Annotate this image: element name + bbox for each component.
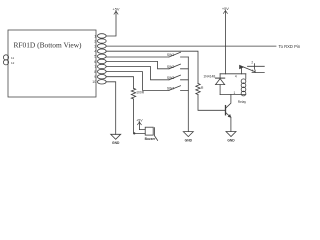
- pin 4 pad: [97, 49, 106, 53]
- wire pin7 to switch SW3: [106, 67, 169, 80]
- pin 12 pad: [3, 60, 8, 65]
- pin 5 pad: [97, 54, 106, 58]
- svg-text:SW1: SW1: [167, 53, 174, 57]
- resistor 100R: [131, 88, 135, 99]
- wire +5V riser to diode/relay node: [224, 11, 226, 74]
- buzzer LS1 body: [145, 127, 153, 135]
- svg-text:11: 11: [11, 56, 14, 60]
- svg-text:100R: 100R: [136, 90, 145, 94]
- wire switch bus to ground: [187, 57, 189, 132]
- svg-text:SW3: SW3: [167, 76, 174, 80]
- svg-text:5: 5: [94, 55, 96, 59]
- svg-text:Buzzer: Buzzer: [145, 137, 157, 141]
- module U1 RF01D body: [8, 30, 96, 97]
- relay K1 armature: [243, 67, 254, 72]
- svg-text:Relay: Relay: [238, 100, 247, 104]
- junction dot buzzer input: [133, 132, 135, 134]
- diode D1 stubs: [219, 74, 221, 95]
- svg-text:8: 8: [94, 70, 96, 74]
- pin 1 pad: [97, 34, 106, 38]
- svg-text:4: 4: [94, 50, 96, 54]
- transistor Q1 emitter: [226, 112, 231, 131]
- svg-text:GND: GND: [185, 139, 193, 143]
- svg-text:2: 2: [251, 61, 253, 65]
- svg-text:1N4148: 1N4148: [203, 75, 215, 79]
- resistor R: [196, 84, 200, 95]
- wire +5V to buzzer top terminal: [139, 122, 145, 130]
- pin 8 pad: [97, 69, 106, 73]
- wire top node diode to coil: [220, 73, 246, 75]
- transistor Q1 emitter arrow: [228, 115, 231, 118]
- wire pin6 to switch SW2: [106, 61, 169, 68]
- wire pin9 to resistor 100R: [106, 77, 133, 89]
- svg-text:SW2: SW2: [167, 65, 174, 69]
- pin 3 pad: [97, 44, 106, 48]
- relay K1 contact NC: [252, 70, 264, 73]
- svg-text:GND: GND: [227, 138, 235, 142]
- wire R to transistor base: [198, 95, 225, 111]
- power +5V (left) arrow: [114, 11, 118, 14]
- svg-text:RF01D (Bottom View): RF01D (Bottom View): [14, 41, 83, 50]
- diode D1 1N4148 body: [216, 79, 225, 85]
- svg-text:9: 9: [94, 75, 96, 79]
- svg-text:1: 1: [234, 91, 236, 95]
- switch SW1: [169, 52, 188, 57]
- svg-text:1: 1: [252, 69, 254, 73]
- wire pin10 to ground: [106, 82, 116, 135]
- relay K1 pole: [240, 65, 244, 68]
- wire pin1 to +5V riser: [106, 11, 116, 36]
- wire 100R to buzzer: [134, 99, 146, 133]
- transistor Q1 collector: [226, 95, 231, 109]
- svg-text:GND: GND: [112, 141, 120, 145]
- svg-text:1: 1: [94, 34, 96, 38]
- svg-text:4: 4: [235, 75, 237, 79]
- relay K1 coil: [245, 74, 247, 79]
- wire pin5 to switch SW1: [106, 56, 169, 58]
- switch SW2: [169, 64, 188, 69]
- buzzer LS1 sound bar: [154, 128, 157, 141]
- svg-text:12: 12: [11, 61, 15, 65]
- relay K1 contact NO (pin 2): [248, 64, 265, 70]
- power +5V (buzzer) arrow: [138, 122, 142, 125]
- switch SW4: [169, 86, 188, 91]
- pin 7 pad: [97, 64, 106, 68]
- svg-text:6: 6: [94, 60, 96, 64]
- pin 11 pad: [3, 55, 8, 60]
- ground (right) symbol: [226, 132, 236, 137]
- svg-text:7: 7: [94, 65, 96, 69]
- wire pin4 to resistor R: [106, 51, 198, 83]
- ground (left) symbol: [111, 134, 121, 139]
- svg-text:+5V: +5V: [112, 6, 119, 11]
- switch SW3: [169, 75, 188, 80]
- wire pin8 to switch SW4: [106, 72, 169, 91]
- ground (middle) symbol: [183, 132, 193, 137]
- pin 9 pad: [97, 75, 106, 79]
- svg-text:10: 10: [92, 80, 96, 84]
- transistor Q1 base bar: [225, 106, 227, 115]
- pin 2 pad: [97, 39, 106, 43]
- pin 6 pad: [97, 59, 106, 63]
- svg-text:SW4: SW4: [167, 86, 174, 90]
- svg-text:To RXD Pin: To RXD Pin: [279, 44, 301, 49]
- power +5V (relay) arrow: [223, 11, 227, 14]
- diode D1 1N4148 cathode bar: [216, 77, 225, 79]
- svg-text:3: 3: [94, 45, 96, 49]
- pin 10 pad: [97, 80, 106, 84]
- wire pin3 to RXD (long net): [106, 45, 276, 47]
- svg-text:2: 2: [94, 39, 96, 43]
- wire bottom node diode-collector-coil: [220, 94, 246, 96]
- svg-text:R: R: [201, 86, 204, 90]
